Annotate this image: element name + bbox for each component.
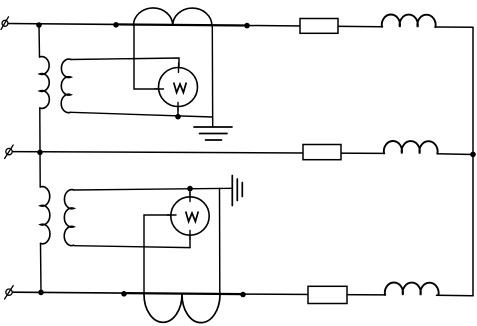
wattmeter W2 <box>167 193 209 240</box>
wire wattmeter W1 bottom stub <box>177 107 179 117</box>
junction dot bottom line CT2 right <box>240 292 246 298</box>
wire CT2 right lead up to ground wire <box>219 188 221 294</box>
inductor L bottom phase <box>385 283 439 296</box>
wire bottom phase line after inductor <box>437 294 474 297</box>
junction dot middle line / right bus <box>470 152 476 158</box>
wire PT1 secondary top lead to wattmeter W1 voltage terminal <box>71 58 179 68</box>
wire top phase line after inductor <box>435 26 473 28</box>
wire middle phase line <box>13 152 385 154</box>
wire top phase line CT primary segment <box>116 24 247 25</box>
transformer PT2 secondary winding <box>64 190 74 246</box>
junction dot top line CT1 left <box>113 22 119 28</box>
wire left bus lower segment <box>40 244 43 293</box>
terminal phase B (middle left) <box>5 145 14 159</box>
transformer PT1 secondary winding <box>61 59 71 113</box>
resistor R bottom phase <box>308 286 347 303</box>
junction dot W1 bottom node <box>175 114 181 120</box>
current transformer CT1 secondary winding <box>134 8 212 26</box>
transformer PT2 primary winding <box>40 187 50 244</box>
resistor R middle phase <box>303 145 341 160</box>
wire bottom phase line CT primary segment <box>124 293 243 294</box>
resistor R top phase <box>300 19 338 34</box>
junction dot middle line / left bus <box>37 150 43 156</box>
junction dot top line CT1 right <box>244 23 250 29</box>
ground (bottom, rotated 90deg pointing right) <box>232 176 242 206</box>
wire left bus upper segment <box>38 25 41 57</box>
wire CT2 left lead to wattmeter W2 current terminal <box>144 215 171 294</box>
transformer PT1 primary winding <box>40 57 50 109</box>
inductor L top phase <box>382 15 436 28</box>
wattmeter W1 <box>155 63 198 111</box>
wire CT1 right lead down to ground <box>211 26 213 127</box>
wire PT2 secondary bottom lead to W2 bottom stub <box>75 246 191 248</box>
wire bottom phase line left segment <box>13 291 124 294</box>
wire middle phase line after inductor <box>437 153 473 156</box>
junction dot W2 top node <box>187 186 193 192</box>
wire CT1 left lead to wattmeter W1 current terminal <box>134 25 159 89</box>
wire top phase line left segment <box>8 23 116 26</box>
wire right bus <box>472 27 474 296</box>
current transformer CT2 secondary winding <box>144 294 220 322</box>
junction dot bottom line CT2 left <box>121 291 127 297</box>
wire left bus between PT1 and middle line <box>39 108 41 187</box>
terminal phase A (top left) <box>1 17 9 30</box>
wire PT2 secondary top lead to ground (rotated) <box>74 188 232 190</box>
terminal phase C (bottom left) <box>5 286 14 299</box>
inductor L middle phase <box>384 141 438 154</box>
wire bottom phase line right segment <box>243 293 386 296</box>
wire PT1 secondary bottom lead to ground node <box>71 112 213 117</box>
wire wattmeter W2 top stub <box>189 189 191 197</box>
junction dot top line / left bus <box>36 22 42 28</box>
wire wattmeter W2 bottom stub <box>189 235 191 247</box>
junction dot bottom line / left bus <box>38 290 44 296</box>
wire top phase line right segment <box>247 26 383 27</box>
ground (top, below CT1 right lead) <box>194 127 232 140</box>
